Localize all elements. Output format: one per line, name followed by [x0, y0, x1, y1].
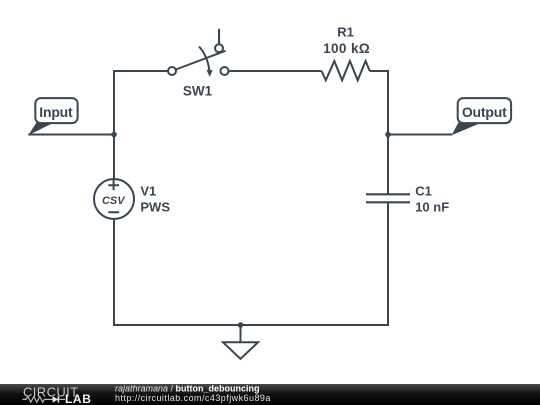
net flag Output: [452, 98, 512, 135]
net flag Output tail: [452, 123, 483, 136]
CircuitLab logo diode wire: [48, 398, 53, 400]
svg-text:PWS: PWS: [140, 200, 170, 215]
switch SW1 actuation arc: [199, 47, 209, 71]
resistor R1 zigzag body: [322, 61, 370, 80]
svg-text:100 kΩ: 100 kΩ: [323, 41, 370, 56]
svg-text:10 nF: 10 nF: [415, 200, 449, 215]
net flag Input box: [35, 98, 77, 123]
voltage source V1: [94, 179, 170, 219]
wire bottom loop (V1 bottom to ground to C1 bottom): [114, 202, 388, 325]
ground stub wire: [240, 325, 242, 342]
node junction at Input on left rail: [111, 132, 117, 138]
CircuitLab logo diode cathode bar: [57, 396, 59, 402]
switch SW1 actuation arrowhead: [207, 70, 213, 77]
switch SW1 common terminal pin: [168, 67, 176, 75]
svg-text:SW1: SW1: [183, 84, 213, 99]
wire right rail to Output flag: [388, 134, 452, 136]
switch SW1 right throw terminal pin: [221, 67, 229, 75]
CircuitLab logo resistor zigzag: [23, 397, 49, 403]
switch SW1 top throw terminal pin: [215, 44, 223, 52]
voltage source V1 circle body: [94, 179, 134, 219]
switch SW1: [168, 29, 229, 99]
CircuitLab logo diode triangle: [53, 396, 59, 402]
svg-text:LAB: LAB: [65, 392, 91, 405]
wire top-left corner (switch common to V1 top): [114, 71, 168, 179]
ground triangle symbol: [223, 342, 258, 359]
capacitor C1: [366, 184, 449, 215]
node junction at ground on bottom wire: [238, 322, 244, 328]
switch SW1 top throw stub wire: [218, 29, 220, 44]
switch SW1 lever: [176, 51, 226, 70]
svg-text:R1: R1: [337, 25, 354, 40]
capacitor C1 plates: [366, 194, 410, 202]
svg-text:Output: Output: [462, 104, 507, 120]
ground: [223, 325, 258, 359]
svg-text:Input: Input: [39, 104, 73, 120]
net flag Input: [28, 98, 77, 135]
svg-text:C1: C1: [415, 184, 432, 199]
net flag Input tail: [28, 123, 54, 136]
resistor R1: [322, 25, 371, 81]
svg-text:V1: V1: [140, 184, 156, 199]
net flag Output box: [458, 98, 511, 123]
voltage source V1 plus and minus polarity marks: [108, 180, 119, 212]
svg-text:http://circuitlab.com/c43pfjwk: http://circuitlab.com/c43pfjwk6u89a: [115, 393, 271, 403]
wire Input flag to left rail: [28, 134, 114, 136]
svg-text:CSV: CSV: [102, 195, 126, 207]
wire resistor R1 right down to capacitor C1 top: [370, 71, 388, 194]
footer bar: [0, 384, 540, 405]
node junction at Output on right rail: [385, 132, 391, 138]
wire switch throw to resistor R1 left: [229, 70, 322, 72]
CircuitLab logo wire to LAB: [58, 398, 65, 400]
